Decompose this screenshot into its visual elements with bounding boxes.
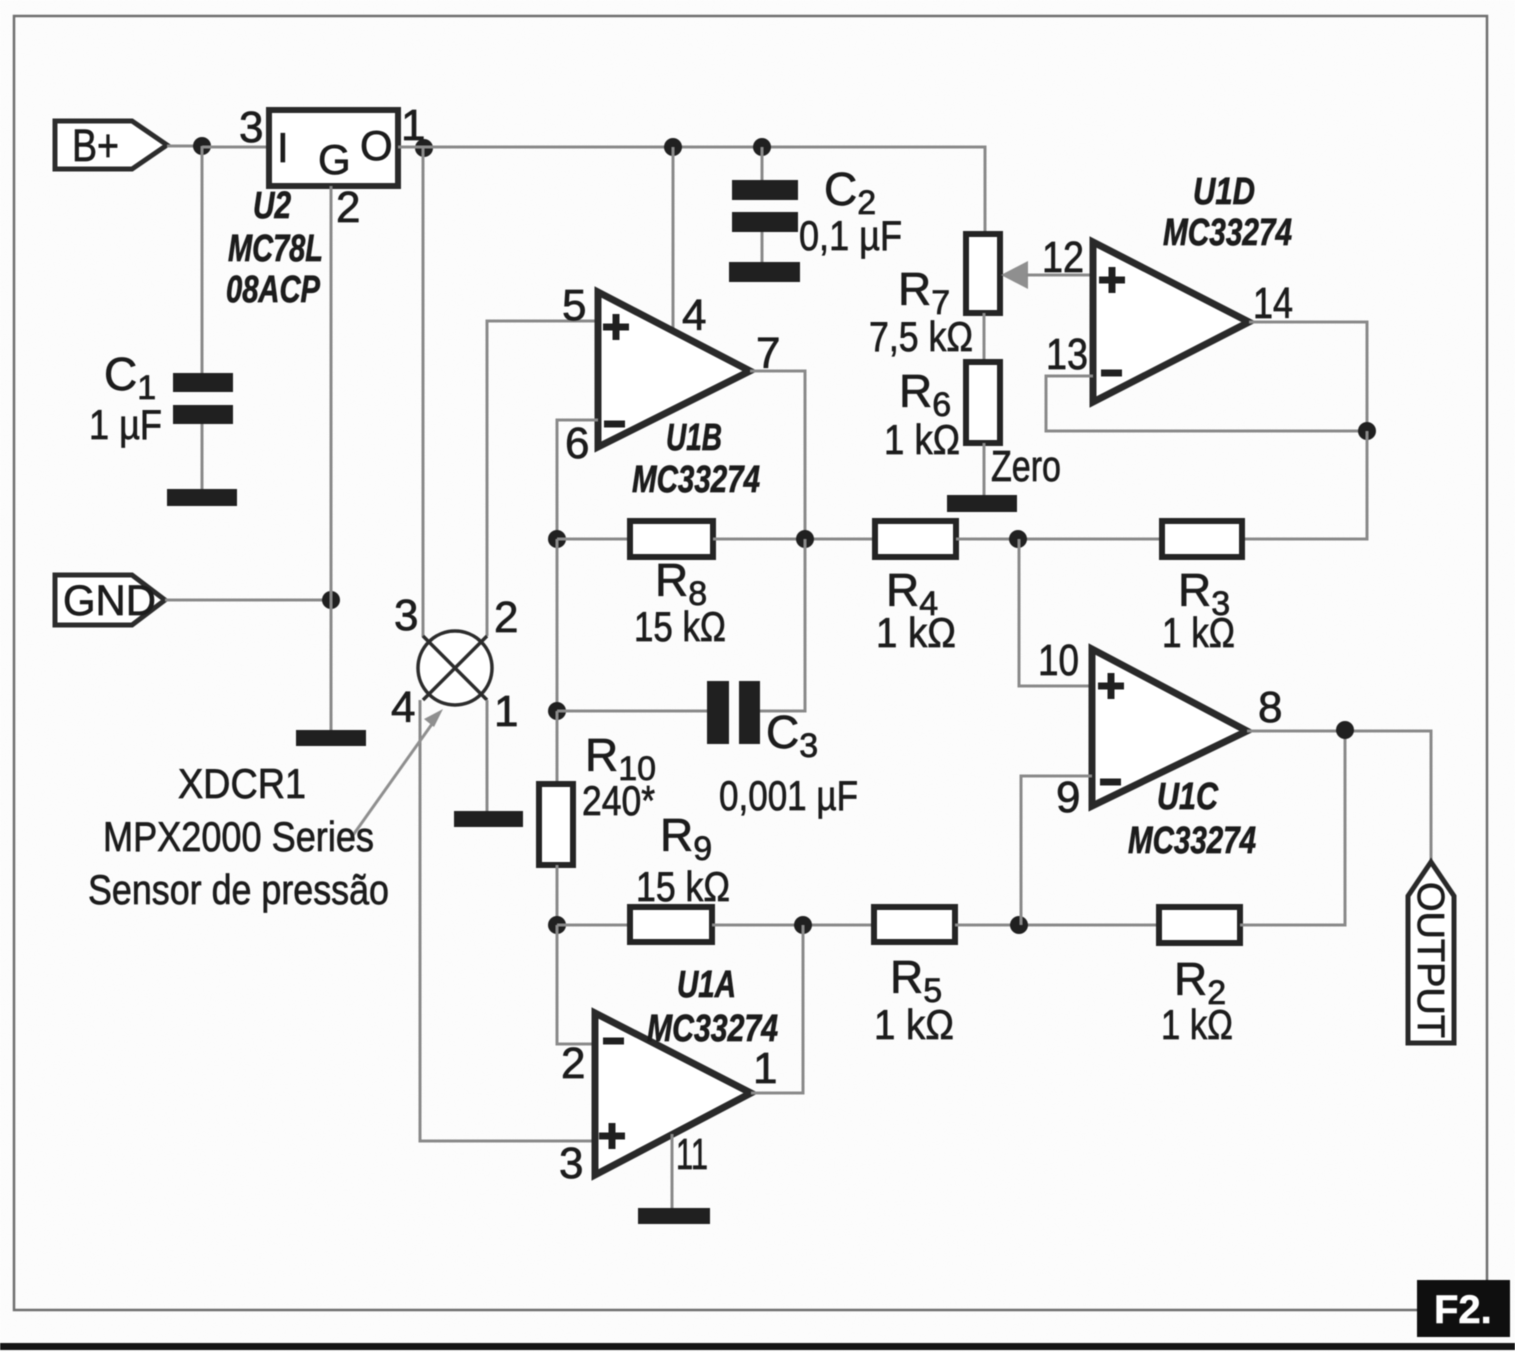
svg-text:2: 2 bbox=[561, 1039, 585, 1088]
node A (B+ junction) bbox=[193, 137, 211, 155]
svg-text:1 kΩ: 1 kΩ bbox=[1161, 1001, 1233, 1048]
svg-text:2: 2 bbox=[494, 593, 518, 642]
wire R2 to U1C feedback bbox=[1240, 730, 1345, 925]
svg-text:MC78L: MC78L bbox=[228, 228, 323, 270]
svg-text:15 kΩ: 15 kΩ bbox=[636, 863, 730, 910]
op-amp U1B bbox=[598, 292, 750, 447]
wire XDCR1 pin1 to ground bbox=[486, 700, 489, 811]
wire XDCR1 pin4 down to U1A bbox=[420, 700, 595, 1141]
svg-text:2: 2 bbox=[336, 183, 360, 232]
resistor R2 bbox=[1159, 907, 1240, 943]
node B (U2 output) bbox=[415, 139, 433, 157]
svg-text:MC33274: MC33274 bbox=[1163, 212, 1292, 254]
node I (R4-R3 / U1C+) bbox=[1009, 530, 1027, 548]
node M (R5-R2 / U1C inv) bbox=[1010, 916, 1028, 934]
wire U1B supply pin4 bbox=[672, 147, 675, 332]
node E (GND junction) bbox=[322, 591, 340, 609]
node N (output junction) bbox=[1336, 721, 1354, 739]
wire U1A supply pin11 to ground bbox=[671, 1134, 674, 1208]
svg-text:10: 10 bbox=[1038, 636, 1079, 685]
svg-text:9: 9 bbox=[1056, 773, 1080, 822]
svg-text:U1A: U1A bbox=[677, 964, 736, 1006]
wire R10 to node K bbox=[556, 865, 559, 925]
svg-text:4: 4 bbox=[682, 291, 706, 340]
wire node I down to U1C noninverting input bbox=[1019, 539, 1092, 686]
svg-text:1 µF: 1 µF bbox=[89, 401, 162, 448]
wire XDCR1 pin3 up to rail bbox=[422, 148, 425, 637]
connector GND bbox=[55, 575, 165, 625]
node K (R9 left / U1A inv) bbox=[548, 916, 566, 934]
page edge bar bbox=[0, 1343, 1515, 1350]
regulator U2 box bbox=[269, 110, 398, 186]
ground (U2 pin2) bbox=[296, 730, 366, 746]
svg-text:XDCR1: XDCR1 bbox=[178, 760, 306, 807]
wire C1 to ground bbox=[201, 424, 204, 489]
svg-text:1 kΩ: 1 kΩ bbox=[876, 609, 956, 656]
resistor R7 (trimmer) bbox=[966, 234, 1000, 313]
svg-text:3: 3 bbox=[394, 591, 418, 640]
node H (U1B out / R8-R4) bbox=[796, 530, 814, 548]
node D (C2 tap) bbox=[753, 138, 771, 156]
wire C3 right to node H bbox=[760, 539, 805, 711]
wire U1B inv node down to C3 node bbox=[556, 539, 559, 711]
wire U1B inverting input bbox=[557, 420, 598, 539]
connector B+ bbox=[55, 120, 167, 171]
wire node K to R9 bbox=[557, 924, 630, 927]
wire R4 to R3 bbox=[956, 538, 1162, 541]
wire U1D feedback to inverting input bbox=[1046, 376, 1367, 431]
svg-text:B+: B+ bbox=[72, 120, 119, 171]
ground (XDCR1 pin1) bbox=[454, 811, 523, 827]
wire node G to R8 bbox=[557, 538, 630, 541]
resistor R3 bbox=[1162, 521, 1242, 557]
resistor R8 bbox=[630, 521, 713, 557]
svg-text:7,5 kΩ: 7,5 kΩ bbox=[869, 313, 973, 360]
svg-text:O: O bbox=[360, 122, 393, 169]
svg-text:Sensor de pressão: Sensor de pressão bbox=[88, 866, 389, 913]
svg-text:1 kΩ: 1 kΩ bbox=[874, 1001, 954, 1048]
svg-text:11: 11 bbox=[676, 1130, 708, 1179]
svg-text:1: 1 bbox=[494, 687, 518, 736]
svg-text:MC33274: MC33274 bbox=[1128, 820, 1256, 862]
wire R5 to R2 bbox=[955, 924, 1159, 927]
U1B reference labels bbox=[632, 417, 760, 501]
node L (U1A out / R9-R5) bbox=[794, 916, 812, 934]
wire U1D output bbox=[1249, 322, 1367, 431]
connector OUTPUT bbox=[1408, 862, 1454, 1043]
svg-text:6: 6 bbox=[565, 419, 589, 468]
op-amp U1D bbox=[1093, 242, 1249, 402]
svg-text:15 kΩ: 15 kΩ bbox=[634, 603, 726, 650]
U1C reference labels bbox=[1128, 776, 1256, 862]
svg-text:F2.: F2. bbox=[1434, 1288, 1492, 1332]
svg-text:MPX2000 Series: MPX2000 Series bbox=[103, 813, 374, 860]
node G (U1B inv / R8 left) bbox=[548, 530, 566, 548]
svg-text:8: 8 bbox=[1258, 683, 1282, 732]
wire U1C inverting input bbox=[1021, 776, 1092, 925]
wire R7 to R6 bbox=[983, 313, 986, 362]
ground (R6, Zero) bbox=[947, 495, 1017, 512]
wire node F down to R3 bbox=[1242, 431, 1367, 539]
U2 reference labels bbox=[226, 185, 323, 311]
XDCR1 callout arrow bbox=[351, 709, 443, 838]
R7 wiper arrow bbox=[1001, 261, 1092, 289]
capacitor C1 bbox=[173, 373, 233, 424]
svg-text:08ACP: 08ACP bbox=[226, 269, 321, 311]
svg-text:12: 12 bbox=[1042, 233, 1084, 282]
wire U1A inverting input bbox=[557, 925, 595, 1044]
ground (C1) bbox=[167, 489, 237, 506]
node J (C3 / R10 junction) bbox=[548, 702, 566, 720]
wire GND to node bbox=[165, 599, 331, 602]
capacitor C2 bbox=[732, 147, 798, 263]
wire R8 to R4 bbox=[713, 538, 875, 541]
svg-text:MC33274: MC33274 bbox=[647, 1008, 778, 1050]
svg-text:Zero: Zero bbox=[991, 442, 1061, 491]
figure tag F2. bbox=[1417, 1280, 1510, 1337]
svg-text:4: 4 bbox=[391, 683, 415, 732]
svg-text:U1B: U1B bbox=[666, 417, 722, 459]
wire B+ node down to C1 bbox=[201, 146, 204, 373]
svg-text:OUTPUT: OUTPUT bbox=[1409, 882, 1451, 1038]
wire U1B noninverting input bbox=[487, 321, 598, 636]
ground (U1A pin11) bbox=[638, 1208, 710, 1224]
wire U1A output up to node L bbox=[751, 925, 803, 1093]
svg-text:G: G bbox=[318, 136, 351, 183]
resistor R10 bbox=[539, 784, 573, 865]
wire R6 to ground bbox=[983, 443, 986, 496]
capacitor C3 bbox=[707, 681, 760, 744]
resistor R6 bbox=[966, 362, 1000, 443]
svg-text:U1D: U1D bbox=[1193, 171, 1255, 213]
wire B+ to node bbox=[167, 145, 202, 148]
wire +8V rail bbox=[398, 147, 985, 234]
resistor R4 bbox=[875, 521, 956, 557]
wire node J down to R10 bbox=[556, 711, 559, 784]
wire R9 to R5 bbox=[712, 924, 874, 927]
node F (U1D output feedback) bbox=[1358, 422, 1376, 440]
U1A reference labels bbox=[647, 964, 778, 1050]
U1D reference labels bbox=[1163, 171, 1292, 254]
svg-text:1: 1 bbox=[753, 1044, 777, 1093]
svg-text:U2: U2 bbox=[253, 185, 291, 227]
ground (C2) bbox=[729, 262, 800, 282]
resistor R5 bbox=[874, 907, 955, 942]
wire node to U2 pin3 bbox=[202, 146, 269, 149]
svg-text:3: 3 bbox=[239, 103, 263, 152]
wire U1B output bbox=[750, 371, 805, 539]
svg-text:0,001 µF: 0,001 µF bbox=[719, 772, 858, 819]
svg-text:MC33274: MC33274 bbox=[632, 459, 760, 501]
svg-text:1 kΩ: 1 kΩ bbox=[1162, 609, 1235, 656]
svg-text:240*: 240* bbox=[582, 777, 655, 824]
svg-text:5: 5 bbox=[562, 281, 586, 330]
node C (U1B supply tap) bbox=[664, 138, 682, 156]
wire node J to C3 bbox=[557, 710, 707, 713]
svg-text:U1C: U1C bbox=[1157, 776, 1218, 818]
resistor R9 bbox=[630, 907, 712, 942]
op-amp U1A bbox=[595, 1013, 751, 1175]
wire U2 pin2 down through GND node bbox=[330, 186, 333, 730]
svg-text:13: 13 bbox=[1046, 330, 1088, 379]
svg-text:0,1 µF: 0,1 µF bbox=[799, 212, 902, 259]
svg-text:GND: GND bbox=[63, 577, 156, 625]
wire U1C output bbox=[1247, 731, 1431, 863]
svg-text:I: I bbox=[277, 124, 289, 171]
svg-text:1 kΩ: 1 kΩ bbox=[884, 416, 960, 463]
svg-text:3: 3 bbox=[559, 1139, 583, 1188]
op-amp U1C bbox=[1092, 649, 1247, 806]
sensor XDCR1 bbox=[418, 631, 492, 705]
